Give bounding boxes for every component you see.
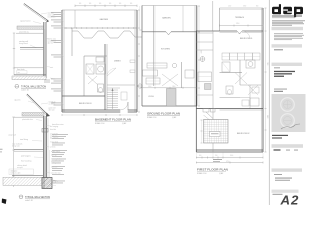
- basement right dim marks: [138, 10, 140, 112]
- ground floor slab line: [14, 74, 46, 76]
- basement annotation notes column: [51, 12, 64, 105]
- roof rafter line: [23, 4, 49, 23]
- first plan outer walls: [196, 1, 263, 152]
- svg-text:clg joists: clg joists: [14, 99, 21, 102]
- sheet number A2: [280, 193, 300, 208]
- basement door opening gap: [120, 109, 127, 112]
- svg-text:KITCHEN: KITCHEN: [161, 49, 170, 51]
- hall wall: [107, 85, 135, 100]
- svg-text:scale 1:10: scale 1:10: [25, 200, 33, 202]
- bedroom label basement: [79, 103, 91, 105]
- svg-text:BEDROOM 02: BEDROOM 02: [237, 133, 249, 135]
- grey bar 6: [272, 190, 299, 195]
- roof annotation leaders: [30, 9, 55, 19]
- notes paragraph: [274, 33, 304, 40]
- svg-text:lining board: lining board: [19, 42, 28, 45]
- svg-text:2980: 2980: [243, 5, 246, 7]
- detail title 2: [19, 195, 50, 202]
- svg-text:TERRACE: TERRACE: [235, 16, 245, 19]
- first right dim col: [265, 8, 269, 152]
- general notes block: [52, 123, 68, 183]
- svg-text:900: 900: [199, 155, 202, 157]
- svg-text:SCALE 1:50: SCALE 1:50: [147, 116, 156, 119]
- svg-text:air brick: air brick: [50, 147, 56, 149]
- wall cavity 2: [44, 116, 50, 187]
- stamp circle 1: [281, 98, 295, 112]
- eaves annotation: [20, 20, 41, 24]
- svg-text:det note: det note: [49, 108, 55, 111]
- bedroom label first: [237, 133, 249, 135]
- spec note box: [9, 169, 34, 175]
- left bottom text: [213, 159, 222, 162]
- ground rear wall with door: [142, 32, 197, 35]
- svg-text:floor finish: floor finish: [17, 68, 25, 71]
- corner mark: [2, 199, 7, 205]
- garden fence lines: [154, 6, 184, 87]
- detail title 1: [15, 84, 46, 91]
- basement lower wall: [62, 95, 105, 97]
- svg-text:@ A2: @ A2: [122, 122, 126, 125]
- dining window marks: [130, 60, 135, 73]
- first floor plan: [196, 1, 268, 175]
- scalloped planting line: [72, 28, 142, 56]
- kitchen label: [161, 49, 170, 51]
- title block divider: [268, 0, 270, 205]
- living label: [240, 38, 252, 40]
- first floor stair grid: [204, 120, 229, 144]
- svg-text:floor boarding: floor boarding: [21, 159, 31, 162]
- basement dim ticks bottom: [62, 114, 137, 116]
- side wing rooms: [196, 31, 213, 152]
- svg-text:@ A2: @ A2: [219, 172, 223, 175]
- ceiling hatch 2: [22, 113, 44, 116]
- svg-text:plasterbd clg: plasterbd clg: [19, 31, 29, 34]
- svg-text:DINING: DINING: [114, 61, 121, 63]
- ground plan title: [147, 112, 180, 119]
- basement stairs: [107, 88, 120, 109]
- first bottom dims: [196, 153, 263, 164]
- lower room lines: [14, 68, 44, 74]
- grey bar 3 client: [272, 63, 303, 77]
- svg-text:TYPICAL WALL SECTION: TYPICAL WALL SECTION: [25, 196, 50, 199]
- footing block 2: [42, 178, 58, 189]
- svg-text:scale 1:10: scale 1:10: [21, 89, 29, 91]
- svg-text:4100: 4100: [200, 50, 202, 54]
- basement outer walls: [62, 10, 137, 112]
- right leaders low 2: [47, 151, 63, 175]
- svg-text:3200: 3200: [148, 86, 152, 88]
- ceiling line: [16, 31, 44, 34]
- garden path line: [74, 10, 76, 28]
- grey bar 1: [272, 27, 304, 30]
- lower notes 2: [17, 154, 43, 169]
- svg-text:SCALE 1:50: SCALE 1:50: [197, 172, 206, 175]
- roof leaders 2: [41, 101, 56, 112]
- svg-text:980: 980: [99, 3, 102, 5]
- ceiling line 2: [14, 117, 44, 121]
- first plan top dim: [220, 23, 264, 27]
- svg-text:@ A2: @ A2: [172, 116, 176, 119]
- svg-text:1240: 1240: [228, 5, 231, 7]
- svg-text:BEDROOM 01: BEDROOM 01: [240, 38, 252, 40]
- wall section detail 2: [3, 94, 63, 202]
- svg-text:plasterbd skim: plasterbd skim: [22, 118, 33, 121]
- bathroom fixtures: [86, 57, 106, 93]
- fold marks: [0, 149, 3, 153]
- garden label ground: [162, 17, 171, 20]
- stair winder diagonals: [204, 112, 214, 120]
- basement door swing: [120, 102, 128, 110]
- ground right dim col: [198, 6, 202, 106]
- svg-text:2600: 2600: [230, 155, 233, 157]
- svg-text:1800: 1800: [172, 86, 176, 88]
- dsp logo: [272, 4, 303, 18]
- dining label + door swing: [107, 61, 121, 77]
- svg-text:cavity wall: cavity wall: [8, 134, 16, 137]
- grey bar 4: [272, 144, 304, 151]
- ground hatch strip 1: [12, 76, 46, 80]
- door arc bedroom: [242, 31, 250, 39]
- ground hatch strip 2: [3, 177, 42, 185]
- svg-text:A2: A2: [280, 193, 300, 205]
- basement floor plan: [62, 3, 143, 125]
- dim line 2: [12, 117, 14, 187]
- svg-text:joist hangers: joist hangers: [20, 154, 31, 157]
- ceiling insulation hatch: [17, 26, 46, 29]
- svg-text:LIVING: LIVING: [148, 96, 154, 98]
- stair top boxes: [203, 109, 215, 112]
- svg-text:SCALE 1:50: SCALE 1:50: [95, 122, 104, 125]
- svg-text:GARDEN: GARDEN: [100, 18, 109, 21]
- ground left tick: [140, 6, 143, 30]
- first mid wall: [196, 109, 263, 111]
- wall note mid: [19, 40, 37, 48]
- svg-text:980: 980: [109, 3, 112, 5]
- garden label basement: [100, 18, 109, 21]
- footing lines: [44, 78, 55, 82]
- right leader notes: [46, 38, 56, 69]
- revision lines: [275, 178, 292, 181]
- svg-text:as spec: as spec: [17, 167, 23, 169]
- section marker diamond: [138, 84, 143, 89]
- drawing title lines: [274, 89, 287, 92]
- svg-text:760: 760: [215, 155, 218, 157]
- svg-text:980: 980: [79, 3, 82, 5]
- living room label: [148, 96, 154, 98]
- svg-text:lining note: lining note: [12, 145, 20, 148]
- svg-text:980: 980: [119, 3, 122, 5]
- svg-text:vapour barrier: vapour barrier: [20, 20, 31, 23]
- wall notes mid 2: [8, 134, 42, 148]
- vent box: [42, 129, 48, 133]
- address paragraph: [272, 20, 305, 25]
- kitchen fixtures: [143, 62, 195, 88]
- first floor line: [20, 48, 44, 50]
- right leaders mid 2: [47, 125, 59, 149]
- ground plan outer walls: [142, 6, 197, 107]
- basement top dimension line: [75, 3, 137, 7]
- first rear wall: [196, 31, 263, 34]
- svg-text:BEDROOM 03: BEDROOM 03: [79, 103, 91, 105]
- svg-text:insul lining: insul lining: [20, 139, 28, 141]
- svg-text:TYPICAL WALL SECTION: TYPICAL WALL SECTION: [21, 85, 46, 88]
- signature scribble: [281, 124, 300, 129]
- ground stair shaft shaded: [167, 89, 177, 107]
- svg-text:3400: 3400: [266, 115, 268, 119]
- title block: [272, 4, 306, 207]
- svg-text:FIRST FLOOR PLAN: FIRST FLOOR PLAN: [197, 168, 228, 172]
- ensuite fixtures: [220, 60, 262, 109]
- first plan title: [197, 168, 228, 175]
- ground floor plan: [140, 6, 202, 119]
- svg-text:6750: 6750: [226, 161, 230, 163]
- stair dim ticks: [201, 120, 203, 143]
- svg-text:3350: 3350: [236, 23, 240, 25]
- eaves note 2: [14, 99, 34, 104]
- svg-text:slab spec:: slab spec:: [11, 170, 19, 172]
- wall section detail 1: [12, 4, 56, 92]
- svg-text:980: 980: [130, 3, 133, 5]
- svg-text:membrane: membrane: [48, 16, 56, 19]
- grey bar 2: [272, 44, 303, 50]
- project address lines: [272, 135, 288, 139]
- basement plan title: [95, 118, 131, 125]
- svg-text:100 conc dpm: 100 conc dpm: [11, 172, 22, 174]
- grey bar 5: [272, 168, 303, 175]
- svg-text:dpc line: dpc line: [48, 43, 54, 45]
- svg-text:7300: 7300: [266, 62, 268, 66]
- floor line 2: [14, 150, 44, 152]
- section dim line: [13, 33, 15, 75]
- roof rafter line 2: [26, 94, 50, 117]
- svg-text:980: 980: [89, 3, 92, 5]
- wardrobe row: [222, 53, 260, 60]
- svg-text:GROUND FLOOR PLAN: GROUND FLOOR PLAN: [147, 112, 180, 116]
- svg-text:GARDEN: GARDEN: [162, 17, 171, 20]
- stamp circle 2: [281, 114, 295, 128]
- terrace label: [235, 16, 245, 19]
- svg-text:BASEMENT FLOOR PLAN: BASEMENT FLOOR PLAN: [95, 118, 131, 122]
- basement interior wall vertical: [105, 44, 107, 110]
- basement mid wall: [84, 56, 107, 96]
- ground mid dimension line: [140, 86, 197, 89]
- retaining wall line: [64, 27, 137, 29]
- stamp box: [272, 94, 306, 132]
- wall cavity: [44, 22, 47, 78]
- svg-text:860: 860: [256, 5, 259, 7]
- ground floor slab line 2: [12, 175, 43, 177]
